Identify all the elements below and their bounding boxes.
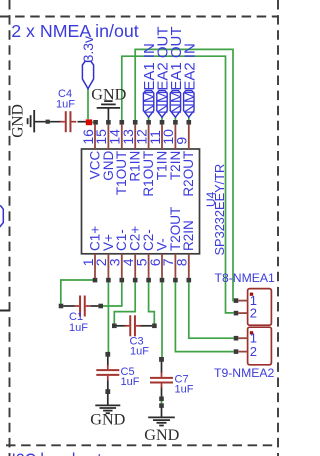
svg-text:GND: GND bbox=[144, 426, 179, 444]
svg-text:1uF: 1uF bbox=[69, 322, 88, 334]
svg-text:2: 2 bbox=[250, 344, 257, 359]
svg-text:1uF: 1uF bbox=[121, 376, 140, 388]
svg-text:2: 2 bbox=[250, 306, 257, 321]
svg-text:R2OUT: R2OUT bbox=[181, 151, 196, 197]
svg-text:R2IN: R2IN bbox=[181, 220, 196, 251]
svg-text:1uF: 1uF bbox=[130, 346, 149, 358]
svg-text:SP3232EEY/TR: SP3232EEY/TR bbox=[212, 164, 227, 256]
svg-text:NMEA2 IN: NMEA2 IN bbox=[181, 43, 198, 114]
svg-text:9: 9 bbox=[174, 137, 190, 145]
svg-text:8: 8 bbox=[174, 258, 190, 266]
svg-text:GND: GND bbox=[9, 104, 26, 138]
svg-text:GND: GND bbox=[90, 410, 125, 428]
svg-text:I2C breakouts: I2C breakouts bbox=[12, 449, 110, 456]
svg-text:1uF: 1uF bbox=[56, 99, 75, 111]
svg-text:2 x NMEA in/out: 2 x NMEA in/out bbox=[11, 21, 139, 41]
svg-text:T9-NMEA2: T9-NMEA2 bbox=[214, 366, 274, 380]
svg-text:GND: GND bbox=[91, 86, 126, 104]
svg-text:1uF: 1uF bbox=[175, 384, 194, 396]
svg-text:T8-NMEA1: T8-NMEA1 bbox=[215, 271, 275, 285]
